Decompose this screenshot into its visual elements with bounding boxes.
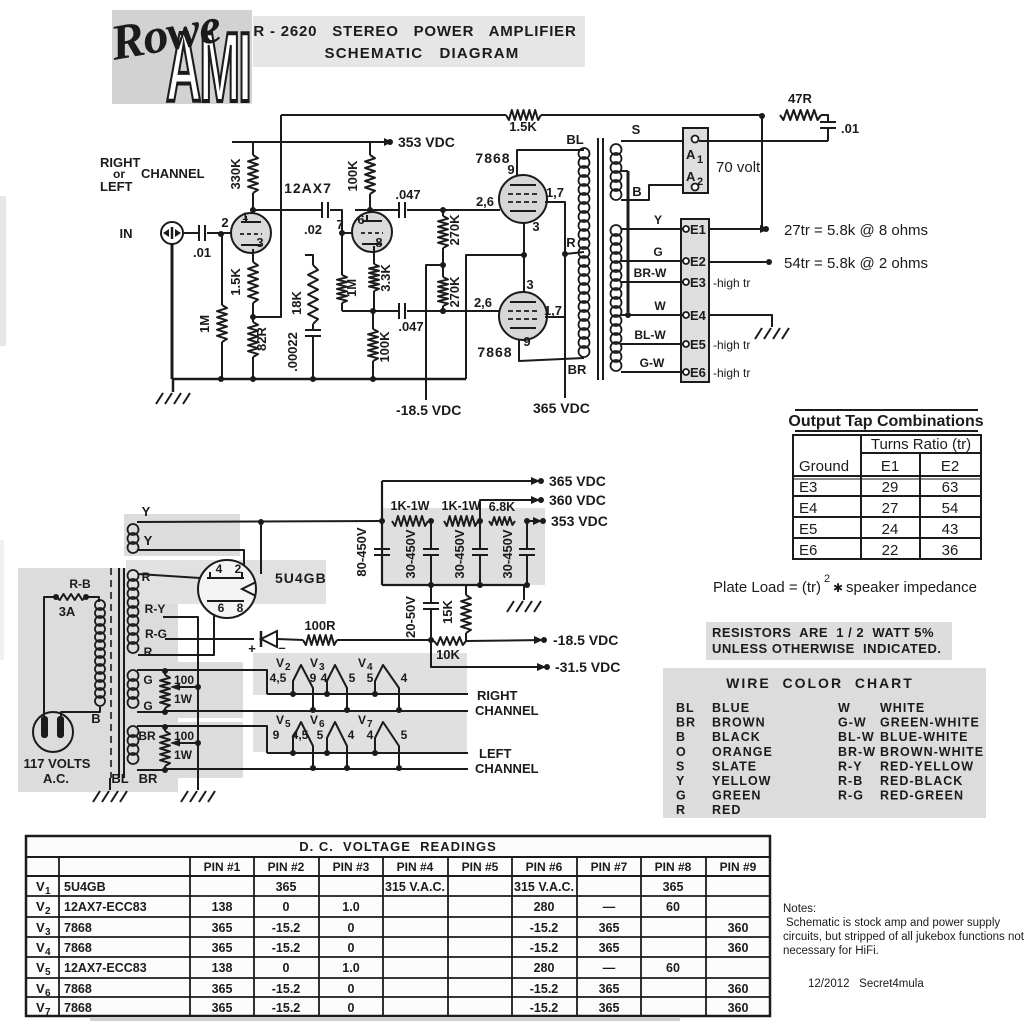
svg-text:R-B: R-B bbox=[838, 774, 863, 788]
svg-text:1.0: 1.0 bbox=[342, 900, 359, 914]
gray patch left channel heaters bbox=[253, 710, 467, 752]
svg-text:9: 9 bbox=[507, 162, 514, 177]
svg-text:V: V bbox=[36, 1000, 45, 1015]
svg-text:BLUE-WHITE: BLUE-WHITE bbox=[880, 730, 968, 744]
terminal strip E bbox=[681, 219, 709, 382]
wiper ground line bbox=[197, 617, 199, 790]
potentiometer 100 1W BR bbox=[162, 724, 168, 730]
svg-text:O: O bbox=[676, 745, 687, 759]
svg-text:-15.2: -15.2 bbox=[272, 921, 301, 935]
node W junction bbox=[625, 312, 631, 318]
node 5U4GB filament bbox=[258, 519, 264, 525]
top feedback rail bbox=[281, 114, 506, 116]
svg-text:-high tr: -high tr bbox=[713, 366, 750, 380]
output transformer core bbox=[597, 138, 599, 380]
logo box bbox=[112, 10, 252, 104]
wire BL-W tap to E5 bbox=[621, 343, 683, 345]
svg-text:4: 4 bbox=[348, 728, 355, 742]
capacitor 30-450V b bbox=[479, 521, 481, 549]
svg-text:0: 0 bbox=[283, 961, 290, 975]
svg-text:-18.5 VDC: -18.5 VDC bbox=[553, 632, 618, 648]
svg-text:RED-YELLOW: RED-YELLOW bbox=[880, 759, 974, 773]
wire R top to tube bbox=[138, 574, 200, 578]
wire cap to grid node bbox=[207, 232, 231, 234]
dc table column line bbox=[318, 857, 320, 1016]
terminal E2 circle bbox=[683, 258, 689, 264]
svg-text:365 VDC: 365 VDC bbox=[549, 473, 606, 489]
svg-text:BLUE: BLUE bbox=[712, 701, 750, 715]
wire A1 to .01 bbox=[699, 140, 828, 142]
node 1M rail bbox=[218, 376, 224, 382]
svg-text:24: 24 bbox=[882, 521, 899, 538]
gray patch heater BR bbox=[113, 722, 243, 778]
wire pin9 lower to BR bbox=[519, 340, 584, 361]
capacitor .047 upper bbox=[370, 209, 398, 211]
dc table column line bbox=[640, 857, 642, 1016]
resistors note background bbox=[706, 622, 952, 660]
output tap table title underline bbox=[795, 430, 978, 432]
svg-text:22: 22 bbox=[882, 542, 899, 559]
svg-text:PIN #3: PIN #3 bbox=[333, 860, 370, 874]
resistor 10K bbox=[434, 637, 466, 645]
svg-text:-15.2: -15.2 bbox=[272, 941, 301, 955]
svg-text:BR-W: BR-W bbox=[634, 266, 667, 280]
svg-text:Y: Y bbox=[144, 533, 153, 548]
svg-text:1W: 1W bbox=[174, 748, 193, 762]
svg-text:V: V bbox=[276, 713, 284, 727]
wire E4 to ground bbox=[709, 315, 772, 327]
svg-text:63: 63 bbox=[942, 479, 959, 496]
wire 47R down bbox=[761, 116, 763, 229]
svg-text:2,6: 2,6 bbox=[476, 194, 494, 209]
wire R-G to diode bbox=[165, 638, 254, 640]
svg-text:-15.2: -15.2 bbox=[272, 982, 301, 996]
svg-text:Y: Y bbox=[676, 774, 685, 788]
wire R bottom to tube bbox=[138, 616, 214, 655]
node filter1 bbox=[428, 518, 434, 524]
wire B+ riser bbox=[381, 481, 383, 585]
dc table row line bbox=[26, 996, 770, 998]
wire grid V2b bias bbox=[341, 233, 343, 273]
capacitor .01 input bbox=[198, 225, 200, 241]
node -31.5 VDC bbox=[544, 664, 550, 670]
svg-text:5: 5 bbox=[285, 719, 291, 730]
node 270K bottom bbox=[440, 308, 446, 314]
svg-text:B: B bbox=[676, 730, 686, 744]
tube V4 7868 lower bbox=[499, 292, 547, 340]
wire .047 lower to grid 7868 lower bbox=[407, 310, 500, 312]
wiper arrow BR bbox=[176, 742, 198, 744]
svg-text:82R: 82R bbox=[254, 326, 269, 350]
svg-text:0: 0 bbox=[348, 921, 355, 935]
wire cathode chain bbox=[523, 222, 525, 293]
svg-text:E5: E5 bbox=[690, 337, 706, 352]
svg-text:speaker impedance: speaker impedance bbox=[846, 579, 977, 596]
wire .047 to grid 7868 upper bbox=[407, 209, 500, 211]
capacitor 30-450V c bbox=[526, 521, 528, 549]
svg-text:270K: 270K bbox=[447, 276, 462, 308]
svg-text:47R: 47R bbox=[788, 91, 812, 106]
gray patch R winding to tube bbox=[126, 560, 326, 604]
svg-text:4: 4 bbox=[367, 728, 374, 742]
dc table column line bbox=[189, 857, 191, 1016]
heater lambda V7 bbox=[375, 722, 399, 768]
svg-text:270K: 270K bbox=[447, 214, 462, 246]
svg-text:6: 6 bbox=[218, 601, 225, 615]
svg-text:2: 2 bbox=[235, 562, 242, 576]
tube V2a triode half bbox=[231, 213, 271, 253]
resistor 330K bbox=[252, 142, 254, 155]
svg-text:-15.2: -15.2 bbox=[530, 941, 559, 955]
svg-text:-15.2: -15.2 bbox=[272, 1001, 301, 1015]
svg-text:-15.2: -15.2 bbox=[530, 982, 559, 996]
power transformer core lines bbox=[118, 568, 120, 778]
tube V2b triode half bbox=[352, 212, 392, 252]
ground symbol input bbox=[172, 379, 175, 392]
svg-text:-18.5 VDC: -18.5 VDC bbox=[396, 402, 461, 418]
resistor 47R bbox=[780, 110, 821, 120]
svg-text:WHITE: WHITE bbox=[880, 701, 925, 715]
wire color chart background bbox=[663, 668, 986, 818]
svg-text:SLATE: SLATE bbox=[712, 759, 757, 773]
ground rail bottom bbox=[173, 378, 466, 381]
svg-text:1: 1 bbox=[45, 886, 51, 897]
svg-text:7868: 7868 bbox=[475, 150, 510, 166]
svg-text:V: V bbox=[36, 960, 45, 975]
svg-text:PIN #8: PIN #8 bbox=[655, 860, 692, 874]
svg-text:BR: BR bbox=[139, 771, 158, 786]
wire rail to 7868 cathodes bbox=[466, 255, 524, 379]
svg-text:PIN #9: PIN #9 bbox=[720, 860, 757, 874]
svg-text:G-W: G-W bbox=[838, 716, 867, 730]
wire BR-W tap to E3 bbox=[621, 281, 683, 283]
node 47R bbox=[759, 113, 765, 119]
svg-text:–: – bbox=[278, 640, 285, 655]
node filter2 bbox=[477, 518, 483, 524]
svg-text:365: 365 bbox=[599, 921, 620, 935]
svg-text:E3: E3 bbox=[690, 275, 706, 290]
wire BR top rail to lambda bbox=[165, 726, 267, 753]
svg-text:R-G: R-G bbox=[838, 789, 864, 803]
svg-text:E6: E6 bbox=[799, 542, 817, 559]
wire BR bottom out bbox=[137, 769, 165, 771]
resistor 3.3K bbox=[373, 262, 375, 264]
svg-text:9: 9 bbox=[523, 334, 530, 349]
svg-text:1.5K: 1.5K bbox=[509, 119, 537, 134]
svg-text:E4: E4 bbox=[690, 308, 707, 323]
dc table row line bbox=[26, 956, 770, 958]
svg-text:V: V bbox=[36, 920, 45, 935]
svg-text:R: R bbox=[142, 570, 151, 584]
wire BR top to left rail bbox=[137, 725, 165, 727]
svg-text:5: 5 bbox=[317, 728, 324, 742]
svg-text:7868: 7868 bbox=[64, 982, 92, 996]
ground symbol wiper bbox=[181, 791, 188, 802]
potentiometer 100 1W G bbox=[162, 668, 168, 674]
svg-text:3: 3 bbox=[45, 927, 51, 938]
svg-text:365: 365 bbox=[276, 880, 297, 894]
svg-text:CHANNEL: CHANNEL bbox=[475, 761, 539, 776]
svg-text:60: 60 bbox=[666, 961, 680, 975]
svg-text:15K: 15K bbox=[440, 599, 455, 623]
svg-text:365: 365 bbox=[212, 921, 233, 935]
svg-text:IN: IN bbox=[120, 226, 133, 241]
svg-text:12/2012 Secret4mula: 12/2012 Secret4mula bbox=[808, 978, 924, 990]
svg-text:3A: 3A bbox=[59, 604, 76, 619]
heater lambda V2 bbox=[293, 665, 313, 710]
wire E1 to speaker bbox=[709, 228, 764, 230]
svg-text:1W: 1W bbox=[174, 692, 193, 706]
svg-text:V: V bbox=[310, 656, 318, 670]
svg-text:SCHEMATIC DIAGRAM: SCHEMATIC DIAGRAM bbox=[324, 45, 519, 62]
svg-text:BL: BL bbox=[676, 701, 695, 715]
svg-text:365: 365 bbox=[212, 1001, 233, 1015]
svg-text:18K: 18K bbox=[289, 290, 304, 314]
svg-text:BROWN: BROWN bbox=[712, 716, 766, 730]
svg-text:Y: Y bbox=[654, 213, 662, 227]
svg-text:315 V.A.C.: 315 V.A.C. bbox=[514, 880, 574, 894]
svg-text:280: 280 bbox=[534, 961, 555, 975]
svg-text:G-W: G-W bbox=[640, 356, 665, 370]
heater lambda V6 bbox=[327, 722, 347, 768]
resistor 1M input bbox=[221, 234, 223, 305]
node cathode net bbox=[370, 308, 376, 314]
svg-text:360: 360 bbox=[728, 982, 749, 996]
svg-text:365: 365 bbox=[599, 941, 620, 955]
dc table column line bbox=[382, 857, 384, 1016]
right channel bottom rail bbox=[165, 710, 468, 712]
svg-text:V: V bbox=[276, 656, 284, 670]
tube V1 5U4GB bbox=[198, 560, 256, 618]
dc table row line bbox=[26, 977, 770, 979]
dc table column line bbox=[576, 857, 578, 1016]
svg-text:LEFT: LEFT bbox=[479, 746, 512, 761]
resistor 82R bbox=[252, 317, 254, 322]
svg-text:.047: .047 bbox=[398, 319, 423, 334]
wire Y bottom to pin4 bbox=[137, 550, 244, 570]
node grid V2b bbox=[339, 230, 345, 236]
node plate V2b bbox=[367, 207, 373, 213]
svg-text:100K: 100K bbox=[377, 331, 392, 363]
svg-text:0: 0 bbox=[283, 900, 290, 914]
svg-text:E1: E1 bbox=[881, 458, 899, 475]
svg-text:E2: E2 bbox=[690, 254, 706, 269]
power transformer primary coil bbox=[95, 600, 105, 610]
svg-text:12AX7-ECC83: 12AX7-ECC83 bbox=[64, 961, 147, 975]
svg-text:7868: 7868 bbox=[64, 1001, 92, 1015]
node R tap bbox=[562, 251, 568, 257]
gray patch transformer area bbox=[18, 568, 178, 792]
resistor 6.8K bbox=[489, 517, 515, 525]
svg-text:5: 5 bbox=[45, 967, 51, 978]
svg-text:V: V bbox=[36, 940, 45, 955]
svg-text:6: 6 bbox=[357, 212, 364, 227]
winding Y bbox=[128, 524, 139, 535]
svg-text:BR: BR bbox=[676, 716, 696, 730]
wire plug left prong bbox=[43, 712, 45, 716]
svg-text:4,5: 4,5 bbox=[292, 728, 309, 742]
ground symbol filter bbox=[523, 585, 525, 600]
svg-text:6.8K: 6.8K bbox=[489, 500, 515, 514]
svg-text:365: 365 bbox=[663, 880, 684, 894]
svg-text:9: 9 bbox=[273, 728, 280, 742]
svg-text:UNLESS OTHERWISE INDICATED.: UNLESS OTHERWISE INDICATED. bbox=[712, 641, 941, 656]
svg-text:9: 9 bbox=[310, 671, 317, 685]
svg-text:360: 360 bbox=[728, 921, 749, 935]
wire W tap to E4 bbox=[621, 314, 683, 316]
wire feedback to top rail bbox=[253, 115, 281, 317]
svg-text:necessary for HiFi.: necessary for HiFi. bbox=[783, 945, 879, 957]
dc table title line bbox=[26, 856, 770, 858]
output transformer primary coil bbox=[579, 148, 590, 159]
svg-text:10K: 10K bbox=[436, 647, 460, 662]
resistor 15K bbox=[465, 585, 467, 595]
wire primary bottom to plug bbox=[61, 707, 100, 712]
node 100K rail bbox=[370, 376, 376, 382]
svg-text:27: 27 bbox=[882, 500, 899, 517]
node grid V2a bbox=[218, 231, 224, 237]
svg-text:R-Y: R-Y bbox=[145, 602, 166, 616]
svg-text:GREEN: GREEN bbox=[712, 789, 761, 803]
terminal E1 circle bbox=[683, 226, 689, 232]
svg-text:—: — bbox=[603, 900, 616, 914]
svg-text:✱: ✱ bbox=[833, 581, 843, 595]
svg-text:43: 43 bbox=[942, 521, 959, 538]
right channel top rail bbox=[267, 693, 468, 695]
wire G top rail to lambda bbox=[165, 670, 267, 694]
svg-text:PIN #4: PIN #4 bbox=[397, 860, 434, 874]
svg-text:E4: E4 bbox=[799, 500, 817, 517]
svg-text:1M: 1M bbox=[344, 279, 359, 297]
node B+ input bbox=[379, 518, 385, 524]
capacitor .00022 bbox=[305, 329, 321, 331]
svg-text:353 VDC: 353 VDC bbox=[551, 513, 608, 529]
wire plate lower 7868 bbox=[545, 316, 565, 318]
wire .02 to grid V2b bbox=[330, 210, 355, 233]
node 270K top bbox=[440, 207, 446, 213]
svg-text:54: 54 bbox=[942, 500, 959, 517]
svg-text:BL-W: BL-W bbox=[634, 328, 666, 342]
terminal E3 circle bbox=[683, 279, 689, 285]
svg-text:27tr = 5.8k @ 8 ohms: 27tr = 5.8k @ 8 ohms bbox=[784, 222, 928, 239]
title box bbox=[253, 16, 585, 67]
tube V3 7868 upper bbox=[499, 175, 547, 223]
filter bottom rail bbox=[382, 584, 527, 586]
node rail b bbox=[477, 582, 483, 588]
svg-text:BR: BR bbox=[568, 362, 587, 377]
shield ground line bbox=[109, 778, 111, 790]
svg-text:8: 8 bbox=[237, 601, 244, 615]
svg-text:3: 3 bbox=[256, 235, 263, 250]
dc table row line bbox=[26, 895, 770, 897]
svg-text:7868: 7868 bbox=[64, 941, 92, 955]
svg-text:330K: 330K bbox=[228, 158, 243, 190]
wire 70V common thick bbox=[627, 171, 630, 312]
B+ top rail 365 bbox=[382, 480, 540, 482]
rail 360 VDC bbox=[480, 500, 540, 521]
dc table column line bbox=[447, 857, 449, 1016]
wire G-W tap to E6 bbox=[621, 371, 683, 373]
svg-text:-high tr: -high tr bbox=[713, 276, 750, 290]
svg-text:R-B: R-B bbox=[69, 577, 91, 591]
svg-text:1.0: 1.0 bbox=[342, 961, 359, 975]
wire plate upper 7868 bbox=[545, 202, 565, 398]
svg-text:20-50V: 20-50V bbox=[403, 596, 418, 638]
svg-text:365: 365 bbox=[212, 982, 233, 996]
left channel bottom rail bbox=[165, 768, 468, 770]
svg-text:.047: .047 bbox=[395, 187, 420, 202]
power transformer shield dashed bbox=[110, 568, 112, 778]
svg-text:3: 3 bbox=[532, 219, 539, 234]
svg-text:GREEN-WHITE: GREEN-WHITE bbox=[880, 716, 980, 730]
svg-text:R: R bbox=[676, 803, 686, 817]
logo AMI outline letters bbox=[166, 14, 250, 123]
svg-text:4: 4 bbox=[321, 671, 328, 685]
svg-text:365: 365 bbox=[599, 1001, 620, 1015]
svg-text:.02: .02 bbox=[304, 222, 322, 237]
svg-text:-high tr: -high tr bbox=[713, 338, 750, 352]
node .00022 rail bbox=[310, 376, 316, 382]
wire G tap to E2 bbox=[621, 260, 683, 262]
gray patch Y winding bbox=[124, 514, 240, 556]
node 54tr bbox=[766, 259, 772, 265]
wire R tap bbox=[565, 252, 584, 254]
wire Y tap to E1 bbox=[621, 228, 683, 230]
svg-text:29: 29 bbox=[882, 479, 899, 496]
svg-text:-15.2: -15.2 bbox=[530, 1001, 559, 1015]
svg-text:E6: E6 bbox=[690, 365, 706, 380]
diode bias bbox=[261, 631, 277, 647]
svg-text:BL: BL bbox=[566, 132, 583, 147]
node 365 VDC bbox=[538, 478, 544, 484]
svg-text:138: 138 bbox=[212, 961, 233, 975]
svg-text:4,5: 4,5 bbox=[270, 671, 287, 685]
wire plate V2a to coupling bbox=[253, 209, 322, 211]
svg-text:.01: .01 bbox=[193, 245, 211, 260]
wire fuse left to plug bbox=[44, 597, 56, 712]
ground symbol shield bbox=[93, 791, 100, 802]
svg-text:circuits, but stripped of all: circuits, but stripped of all jukebox fu… bbox=[783, 931, 1024, 943]
wire cap .01 to 70V line bbox=[827, 128, 829, 141]
svg-text:4: 4 bbox=[216, 562, 223, 576]
svg-text:7868: 7868 bbox=[64, 921, 92, 935]
node cathode mid bbox=[521, 252, 527, 258]
wire .00022 to rail bbox=[312, 336, 314, 379]
capacitor .02 coupling bbox=[321, 202, 323, 218]
svg-text:365 VDC: 365 VDC bbox=[533, 400, 590, 416]
svg-text:5: 5 bbox=[349, 671, 356, 685]
svg-text:G: G bbox=[143, 673, 152, 687]
svg-text:3: 3 bbox=[526, 277, 533, 292]
svg-text:0: 0 bbox=[348, 941, 355, 955]
node 82R rail bbox=[250, 376, 256, 382]
svg-text:Plate Load = (tr): Plate Load = (tr) bbox=[713, 579, 821, 596]
svg-text:5: 5 bbox=[367, 671, 374, 685]
svg-text:BR: BR bbox=[138, 729, 156, 743]
wiper arrow G bbox=[176, 686, 198, 688]
svg-text:S: S bbox=[676, 759, 685, 773]
svg-text:6: 6 bbox=[45, 988, 51, 999]
terminal E4 circle bbox=[683, 312, 689, 318]
node rail a bbox=[428, 582, 434, 588]
svg-text:1,7: 1,7 bbox=[546, 185, 564, 200]
resistor 1K-1W second bbox=[444, 516, 478, 526]
terminal strip A bbox=[683, 128, 708, 193]
node -18.5 a bbox=[428, 637, 434, 643]
svg-text:7: 7 bbox=[45, 1007, 51, 1018]
wire R-Y to ground line bbox=[163, 617, 198, 687]
winding R HV secondary bbox=[128, 570, 139, 581]
